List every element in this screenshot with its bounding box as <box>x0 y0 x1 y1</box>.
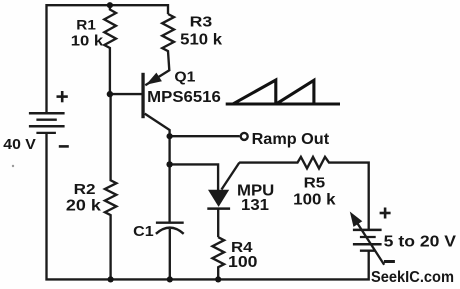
svg-text:100: 100 <box>228 254 258 271</box>
svg-text:Ramp Out: Ramp Out <box>252 131 330 148</box>
svg-text:5 to 20 V: 5 to 20 V <box>384 234 457 251</box>
svg-text:20 k: 20 k <box>66 197 101 214</box>
svg-text:R1: R1 <box>76 16 96 32</box>
svg-text:R5: R5 <box>304 175 326 192</box>
svg-text:40 V: 40 V <box>3 136 36 153</box>
svg-text:Q1: Q1 <box>174 69 195 85</box>
svg-text:10 k: 10 k <box>71 33 104 50</box>
svg-text:SeekIC.com: SeekIC.com <box>371 269 454 286</box>
svg-text:100 k: 100 k <box>293 192 336 209</box>
svg-text:R2: R2 <box>74 181 96 198</box>
svg-text:MPS6516: MPS6516 <box>147 89 221 106</box>
svg-text:131: 131 <box>241 197 269 214</box>
svg-text:510 k: 510 k <box>180 32 222 49</box>
svg-text:C1: C1 <box>133 224 154 240</box>
svg-text:R3: R3 <box>190 14 213 31</box>
